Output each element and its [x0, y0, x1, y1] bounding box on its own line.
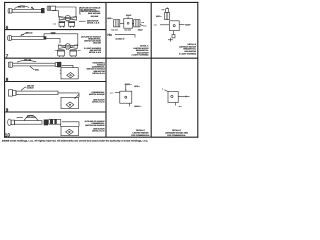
row9 tube label leader [21, 87, 27, 90]
svg-text:DETAIL B & D: DETAIL B & D [92, 101, 105, 104]
figure number 6 [6, 25, 9, 30]
svg-text:7: 7 [6, 54, 9, 59]
figure number 10 [5, 132, 11, 137]
detail D right lead [178, 96, 189, 98]
svg-text:x—: x— [78, 50, 81, 52]
copyright line [2, 140, 148, 143]
row7 text block 2 [84, 47, 102, 54]
svg-text:SIDE INCLINE: SIDE INCLINE [88, 12, 101, 15]
row7 wire A label [51, 31, 56, 34]
detail A text block [131, 45, 149, 57]
row10 drop wire [60, 124, 62, 126]
detail D top left leader [165, 90, 169, 92]
svg-text:xxx xxx: xxx xxx [125, 29, 132, 31]
row9 tube body [16, 91, 58, 94]
row10 coupler piece [49, 119, 61, 124]
row10 tube body [15, 121, 42, 125]
row6 text block 2 [87, 19, 100, 24]
detail B SEC label [156, 15, 162, 18]
row7 motor left lead label [55, 50, 59, 52]
svg-text:84: 84 [31, 6, 33, 9]
row8 tube label arc [17, 60, 36, 62]
row6 text block 1 bracket [80, 7, 81, 14]
svg-text:xxx xxx: xxx xxx [111, 29, 118, 31]
detail B top box [162, 7, 169, 12]
row7 motor right wing [70, 45, 77, 49]
row6 wire A [56, 7, 76, 18]
row10 dome leader dashes [17, 116, 24, 119]
row6 tube label arc [15, 6, 35, 9]
separator row7/8 (full width) [5, 57, 198, 59]
row10 plug connector [8, 119, 15, 125]
row9 text block 2 [92, 99, 105, 104]
row8 SEC leader [30, 66, 35, 69]
row8 box tabs [60, 70, 61, 73]
row6 tube body [12, 9, 41, 12]
separator row8/9 [5, 81, 106, 83]
row6 coil feet [60, 26, 73, 27]
detail B connector [165, 12, 170, 19]
row6 end fitting [41, 8, 44, 13]
detail B left lead line [160, 24, 169, 26]
svg-text:DETAIL B & D: DETAIL B & D [92, 72, 105, 75]
row9 switch box [61, 97, 79, 108]
separator row9/10 [5, 111, 106, 113]
detail D bottom label [179, 106, 182, 108]
vertical divider x=106 [105, 2, 107, 137]
svg-text:x: x [162, 89, 164, 91]
row8 switch diamond [67, 73, 75, 78]
row6 text block 2 leader [79, 20, 86, 22]
row6 coil box right [69, 22, 75, 27]
figure number 8 [6, 77, 9, 82]
detail A part number label [116, 37, 125, 40]
row7 end fitting [44, 37, 46, 40]
svg-text:INCLINE: INCLINE [91, 15, 99, 18]
figure number 9 [6, 108, 9, 113]
row9 plug connector [8, 90, 16, 96]
figure number 7 [6, 54, 9, 59]
detail A right label [141, 22, 145, 24]
svg-text:INCLINE: INCLINE [93, 41, 101, 44]
svg-text:CABLE: CABLE [27, 86, 34, 89]
row9 text block 1 [89, 91, 105, 96]
detail A SNAP label [126, 14, 132, 17]
svg-text:2 LIGHT HARNESS: 2 LIGHT HARNESS [131, 54, 149, 57]
svg-text:10: 10 [5, 132, 11, 137]
row6 motor link [66, 20, 67, 23]
detail A right connector [134, 20, 140, 27]
row6 wire B [53, 11, 59, 18]
row7 coil box right [70, 50, 77, 56]
row8 plug connector [8, 62, 12, 67]
row9 switch diamond [66, 102, 74, 108]
detail B left lead label [154, 23, 158, 26]
detail A right leader [140, 25, 147, 27]
svg-text:©2009 Crest Holdings, LLC. All: ©2009 Crest Holdings, LLC. All rights re… [2, 140, 148, 143]
row6 coil box left [59, 22, 65, 27]
detail C riser wire [125, 83, 126, 91]
svg-text:338-130: 338-130 [26, 31, 33, 34]
row7 plug connector [8, 36, 12, 41]
svg-text:—o: —o [154, 23, 158, 26]
svg-text:338-121: 338-121 [18, 5, 25, 8]
row10 text block 1 [85, 120, 106, 127]
row10 switch diamond [66, 129, 74, 134]
svg-text:DETAIL A & B: DETAIL A & B [87, 21, 100, 24]
detail C left label [110, 92, 113, 94]
svg-text:2 LIGHT HARNESS: 2 LIGHT HARNESS [179, 52, 197, 55]
row8 SEC label [35, 69, 40, 72]
detail C left leader [115, 92, 120, 94]
row7 coil feet [60, 56, 76, 57]
row8 wire to box [62, 65, 73, 67]
detail D top left label [162, 89, 164, 91]
svg-text:SEC—: SEC— [134, 85, 140, 88]
svg-text:22-2931 W: 22-2931 W [116, 37, 125, 40]
detail A left connector [114, 20, 120, 27]
detail C SNAP label [134, 105, 141, 108]
detail C top SEC label [124, 83, 132, 86]
svg-text:SEC—: SEC— [156, 15, 162, 18]
row8 tube body [13, 63, 56, 66]
row7 text block 1 [81, 35, 102, 44]
row10 switch box [61, 126, 79, 135]
row8 end fitting [55, 62, 61, 67]
row7 tube label text [26, 31, 33, 34]
svg-text:SEC—: SEC— [107, 17, 113, 20]
svg-text:SNAP—: SNAP— [134, 105, 141, 108]
row9 wire to box [58, 93, 79, 97]
svg-text:SWITCH ON HANDLE: SWITCH ON HANDLE [85, 124, 105, 127]
svg-text:338-140: 338-140 [24, 59, 31, 62]
detail D bottom stub [175, 103, 177, 106]
row6 plug connector [8, 9, 12, 14]
svg-text:—x: —x [53, 23, 57, 25]
detail A Hx label [107, 33, 112, 37]
svg-text:Hx: Hx [107, 33, 112, 37]
row9 tube label text [27, 84, 34, 89]
row10 end fitting [44, 120, 48, 125]
svg-text:SEC: SEC [35, 69, 40, 72]
row10 dome label [27, 115, 34, 118]
detail A motor box [124, 19, 133, 29]
separator row6/7 [5, 29, 106, 31]
detail A SNAP tick [127, 16, 129, 18]
detail B bottom T connector [168, 38, 173, 42]
svg-text:x—: x— [179, 106, 182, 108]
row7 motor rotor circle [65, 44, 70, 49]
svg-text:DETAIL B & D: DETAIL B & D [92, 129, 105, 132]
row6 motor left wing [59, 17, 65, 21]
row8 tube label text [24, 59, 31, 62]
detail B bottom stub [172, 31, 175, 38]
row7 wire B [44, 39, 60, 44]
svg-text:SNAP: SNAP [185, 23, 191, 26]
svg-text:DETAIL A & B: DETAIL A & B [89, 51, 102, 54]
row9 wire diagonal [75, 94, 80, 99]
svg-text:WIRE: WIRE [51, 31, 56, 34]
detail A Hx bracket [115, 35, 135, 38]
row7 motor right lead label [78, 50, 81, 52]
row10 tube dome [24, 115, 38, 120]
row8 switch box [61, 68, 78, 79]
row7 tube body [12, 37, 44, 40]
vertical divider x=151 [150, 2, 152, 137]
row7 tube label leader [21, 33, 29, 36]
svg-text:6: 6 [6, 25, 9, 30]
detail D text block [165, 129, 188, 137]
row10 text block 2 [92, 127, 105, 132]
row7 motor link [67, 48, 69, 51]
detail D motor box [168, 92, 178, 103]
svg-text:—x: —x [141, 22, 145, 24]
svg-text:x—: x— [110, 92, 113, 94]
svg-text:338-160: 338-160 [27, 115, 34, 118]
detail B SNAP label [185, 23, 191, 26]
row6 motor right wing [70, 17, 76, 21]
row6 tube label text [18, 5, 33, 9]
detail C bottom stub [128, 103, 130, 106]
detail C riser label [134, 85, 140, 88]
svg-text:SNAP: SNAP [126, 14, 132, 17]
row6 motor rotor circle [65, 15, 70, 20]
row7 motor left wing [58, 45, 65, 49]
svg-text:9: 9 [6, 108, 9, 113]
detail B text block [179, 43, 197, 55]
row7 wire A [44, 34, 78, 46]
detail C text block [131, 129, 150, 137]
detail B right leader [179, 24, 184, 26]
row6 text block 1 [80, 7, 101, 19]
detail A bottom label right [125, 29, 132, 31]
row10 wire to box [62, 122, 79, 127]
detail A bottom SNAP label [138, 28, 144, 31]
row6 motor left lead label [53, 23, 57, 25]
detail A bottom label left [111, 29, 118, 31]
row8 text block 1 [87, 62, 106, 71]
svg-text:FOR COMMERCIAL: FOR COMMERCIAL [167, 134, 186, 137]
svg-text:SNAP: SNAP [138, 28, 144, 31]
detail A connecting stubs [120, 22, 134, 24]
svg-text:FOR COMMERCIAL: FOR COMMERCIAL [131, 134, 150, 137]
detail A left label [107, 17, 113, 20]
row7 coil box left [58, 50, 65, 56]
row8 text block 2 [92, 70, 105, 75]
detail B motor box [169, 21, 179, 31]
page border frame [4, 1, 198, 3]
svg-text:SWITCH IN BASE: SWITCH IN BASE [89, 93, 105, 96]
detail C motor box [120, 91, 132, 103]
svg-text:8: 8 [6, 77, 9, 82]
row6 coupler piece [47, 6, 56, 10]
